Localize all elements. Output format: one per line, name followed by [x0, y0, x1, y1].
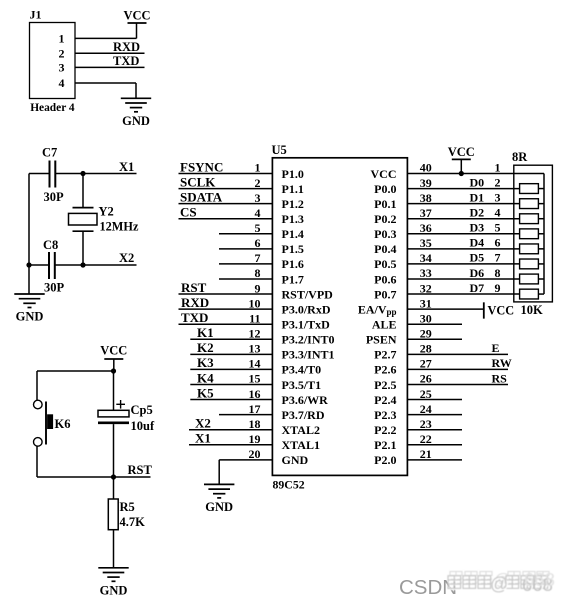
wire U5 pin 28 — [407, 353, 508, 355]
svg-text:11: 11 — [249, 311, 260, 325]
svg-text:668: 668 — [524, 569, 555, 590]
svg-text:22: 22 — [420, 432, 432, 446]
svg-text:Y2: Y2 — [99, 205, 114, 219]
svg-text:P0.6: P0.6 — [374, 272, 396, 286]
svg-text:X2: X2 — [195, 415, 211, 430]
svg-text:29: 29 — [420, 326, 432, 340]
RN resistor 8 lead — [538, 293, 544, 295]
svg-text:7: 7 — [255, 251, 261, 265]
svg-text:D4: D4 — [470, 236, 485, 250]
svg-text:C8: C8 — [43, 238, 58, 252]
svg-text:39: 39 — [420, 176, 432, 190]
wire U5 pin 20 to ground — [218, 460, 220, 485]
RN resistor 5 lead — [538, 248, 544, 250]
svg-text:35: 35 — [420, 236, 432, 250]
svg-text:X1: X1 — [119, 160, 134, 174]
svg-text:20: 20 — [249, 447, 261, 461]
svg-text:23: 23 — [420, 417, 432, 431]
wire U5 pin 20 — [219, 459, 272, 461]
RN resistor 7 lead — [538, 278, 544, 280]
svg-text:K5: K5 — [197, 385, 214, 400]
svg-text:2: 2 — [255, 176, 261, 190]
wire U5 pin 10 — [179, 308, 273, 310]
svg-text:34: 34 — [420, 251, 432, 265]
svg-text:4.7K: 4.7K — [120, 515, 146, 529]
wire switch to RST rail — [36, 446, 38, 477]
wire U5 pin 34 — [407, 263, 519, 265]
svg-text:K1: K1 — [197, 325, 214, 340]
svg-text:9: 9 — [255, 281, 261, 295]
svg-text:30P: 30P — [44, 190, 65, 204]
wire RST net — [114, 476, 151, 478]
svg-text:30: 30 — [420, 311, 432, 325]
svg-text:4: 4 — [59, 76, 65, 90]
IC U5 89C52 body — [272, 158, 407, 476]
node pin40 VCC junction — [459, 171, 464, 176]
svg-text:19: 19 — [249, 432, 261, 446]
svg-text:24: 24 — [420, 402, 432, 416]
svg-text:8R: 8R — [512, 150, 528, 164]
svg-text:RST: RST — [181, 280, 207, 295]
svg-text:2: 2 — [495, 175, 501, 189]
svg-text:P2.2: P2.2 — [374, 423, 396, 437]
svg-text:R5: R5 — [120, 500, 135, 514]
svg-text:89C52: 89C52 — [273, 478, 305, 492]
wire U5 pin 18 — [189, 429, 272, 431]
svg-text:VCC: VCC — [371, 167, 397, 181]
svg-text:RXD: RXD — [181, 295, 209, 310]
wire U5 pin 32 — [407, 293, 519, 295]
RN resistor 6 — [520, 259, 539, 269]
svg-text:RS: RS — [492, 371, 508, 385]
wire U5 pin 9 — [179, 293, 273, 295]
wire U5 pin 33 — [407, 278, 519, 280]
svg-text:X2: X2 — [119, 251, 134, 265]
svg-text:17: 17 — [249, 402, 261, 416]
svg-text:D0: D0 — [470, 175, 485, 189]
svg-text:P1.6: P1.6 — [282, 257, 304, 271]
svg-text:P3.0/RxD: P3.0/RxD — [282, 302, 331, 316]
svg-text:D6: D6 — [470, 266, 485, 280]
svg-text:26: 26 — [420, 372, 432, 386]
svg-text:P3.4/T0: P3.4/T0 — [282, 363, 322, 377]
wire X2 net — [83, 264, 137, 266]
wire VCC rail to switch — [37, 370, 114, 372]
svg-text:27: 27 — [420, 357, 432, 371]
wire U5 pin 29 — [407, 338, 462, 340]
svg-text:37: 37 — [420, 206, 432, 220]
svg-text:21: 21 — [420, 447, 432, 461]
svg-text:ALE: ALE — [372, 318, 397, 332]
svg-text:P2.1: P2.1 — [374, 438, 396, 452]
capacitor Cp5 plus sign — [116, 403, 125, 405]
svg-text:P2.7: P2.7 — [374, 348, 396, 362]
svg-text:6: 6 — [495, 236, 501, 250]
svg-text:K2: K2 — [197, 340, 214, 355]
svg-text:P3.3/INT1: P3.3/INT1 — [282, 348, 335, 362]
svg-text:3: 3 — [495, 190, 501, 204]
svg-text:D7: D7 — [470, 281, 485, 295]
wire U5 pin 22 — [407, 444, 462, 446]
wire X1 net — [83, 173, 137, 175]
svg-text:XTAL2: XTAL2 — [282, 423, 320, 437]
wire U5 pin 12 — [190, 338, 272, 340]
wire U5 pin 37 — [407, 218, 519, 220]
resistor R5 — [108, 499, 118, 530]
wire U5 pin 14 — [190, 368, 272, 370]
switch K6 — [34, 400, 43, 409]
svg-text:P3.7/RD: P3.7/RD — [282, 408, 325, 422]
svg-text:P0.7: P0.7 — [374, 287, 396, 301]
svg-text:U5: U5 — [272, 143, 287, 157]
RN resistor 2 — [520, 199, 539, 209]
svg-text:P0.3: P0.3 — [374, 227, 396, 241]
RN common bus — [543, 174, 545, 295]
svg-text:P1.3: P1.3 — [282, 212, 304, 226]
node RXD wire (J1 pin2) — [75, 52, 145, 54]
svg-text:30P: 30P — [44, 280, 65, 294]
wire U5 pin 24 — [407, 414, 462, 416]
svg-text:P0.4: P0.4 — [374, 242, 396, 256]
svg-text:RXD: RXD — [113, 40, 140, 54]
svg-text:12MHz: 12MHz — [100, 220, 139, 234]
svg-text:7: 7 — [495, 251, 501, 265]
svg-text:SCLK: SCLK — [180, 174, 216, 189]
svg-text:9: 9 — [495, 281, 501, 295]
svg-text:6: 6 — [255, 236, 261, 250]
wire U5 pin 19 — [189, 444, 272, 446]
svg-text:GND: GND — [282, 453, 309, 467]
svg-text:RST: RST — [128, 463, 153, 477]
ground (U5 pin 20) — [204, 483, 234, 485]
wire U5 pin 15 — [190, 383, 272, 385]
wire U5 pin 36 — [407, 233, 519, 235]
svg-text:P0.5: P0.5 — [374, 257, 396, 271]
ground (crystal) — [14, 293, 44, 295]
svg-text:31: 31 — [420, 296, 432, 310]
capacitor C7 — [29, 173, 50, 175]
svg-text:GND: GND — [100, 583, 128, 597]
svg-text:13: 13 — [249, 342, 261, 356]
node C8 left junction — [26, 262, 31, 267]
capacitor C8 — [29, 264, 49, 266]
wire left rail (crystal) — [28, 174, 30, 295]
svg-text:16: 16 — [249, 387, 261, 401]
svg-text:GND: GND — [16, 310, 44, 324]
svg-text:28: 28 — [420, 342, 432, 356]
svg-text:1: 1 — [495, 160, 501, 174]
svg-text:K6: K6 — [55, 417, 71, 431]
svg-text:P2.4: P2.4 — [374, 393, 396, 407]
svg-text:25: 25 — [420, 387, 432, 401]
wire U5 pin 3 — [179, 203, 273, 205]
svg-text:8: 8 — [495, 266, 501, 280]
svg-text:FSYNC: FSYNC — [180, 159, 223, 174]
svg-text:P1.0: P1.0 — [282, 167, 304, 181]
RN resistor 1 — [520, 184, 539, 194]
svg-text:E: E — [492, 341, 500, 355]
wire U5 pin 23 — [407, 429, 462, 431]
RN resistor 4 — [520, 229, 539, 239]
svg-text:14: 14 — [249, 357, 261, 371]
svg-text:VCC: VCC — [488, 304, 515, 318]
svg-text:P3.5/T1: P3.5/T1 — [282, 378, 322, 392]
wire R5 to ground — [113, 530, 115, 568]
svg-text:K4: K4 — [197, 370, 214, 385]
svg-text:32: 32 — [420, 281, 432, 295]
svg-text:TXD: TXD — [113, 54, 139, 68]
node X1 junction — [80, 171, 85, 176]
svg-text:@: @ — [490, 574, 508, 594]
svg-text:3: 3 — [59, 61, 65, 75]
svg-text:2: 2 — [59, 47, 65, 61]
wire U5 pin 4 — [179, 218, 273, 220]
svg-text:VCC: VCC — [448, 145, 475, 159]
svg-text:D5: D5 — [470, 251, 485, 265]
svg-text:D3: D3 — [470, 221, 485, 235]
svg-text:P2.0: P2.0 — [374, 453, 396, 467]
wire U5 pin 21 — [407, 459, 462, 461]
svg-text:P1.1: P1.1 — [282, 182, 304, 196]
svg-text:P0.0: P0.0 — [374, 182, 396, 196]
svg-text:4: 4 — [255, 206, 261, 220]
svg-text:36: 36 — [420, 221, 432, 235]
svg-text:CS: CS — [180, 205, 197, 220]
RN resistor 2 lead — [538, 203, 544, 205]
wire U5 pin 5 — [219, 233, 272, 235]
svg-text:TXD: TXD — [181, 310, 208, 325]
svg-text:P0.1: P0.1 — [374, 197, 396, 211]
wire U5 pin 30 — [407, 323, 462, 325]
svg-text:10uf: 10uf — [131, 419, 155, 433]
wire U5 pin 1 — [179, 173, 273, 175]
wire J1 pin4 to ground — [75, 82, 136, 84]
node TXD wire (J1 pin3) — [75, 66, 145, 68]
svg-text:18: 18 — [249, 417, 261, 431]
wire U5 pin 17 — [219, 414, 272, 416]
svg-text:Header 4: Header 4 — [30, 102, 75, 114]
svg-text:P3.2/INT0: P3.2/INT0 — [282, 333, 335, 347]
svg-text:XTAL1: XTAL1 — [282, 438, 320, 452]
ground (J1) — [121, 97, 151, 99]
RN resistor 5 — [520, 244, 539, 254]
node reset VCC junction — [111, 368, 116, 373]
svg-text:8: 8 — [255, 266, 261, 280]
svg-text:K3: K3 — [197, 355, 214, 370]
svg-text:10: 10 — [249, 296, 261, 310]
svg-text:10K: 10K — [521, 303, 544, 317]
svg-text:C7: C7 — [42, 145, 57, 159]
svg-text:Cp5: Cp5 — [131, 403, 153, 417]
svg-text:P2.6: P2.6 — [374, 363, 396, 377]
svg-text:RW: RW — [492, 356, 512, 370]
wire U5 pin 2 — [179, 188, 273, 190]
svg-text:VCC: VCC — [123, 9, 150, 23]
svg-text:RST/VPD: RST/VPD — [282, 287, 334, 301]
RN resistor 1 lead — [538, 188, 544, 190]
svg-text:P3.1/TxD: P3.1/TxD — [282, 318, 331, 332]
svg-text:D1: D1 — [470, 190, 485, 204]
svg-text:J1: J1 — [30, 8, 42, 22]
wire U5 pin 27 — [407, 368, 508, 370]
svg-text:P1.2: P1.2 — [282, 197, 304, 211]
wire U5 pin 25 — [407, 399, 462, 401]
wire crystal top lead — [82, 174, 84, 208]
svg-text:12: 12 — [249, 326, 261, 340]
wire U5 pin 38 — [407, 203, 519, 205]
capacitor Cp5 — [98, 410, 129, 417]
svg-text:SDATA: SDATA — [180, 189, 223, 204]
svg-text:P2.3: P2.3 — [374, 408, 396, 422]
svg-text:P1.7: P1.7 — [282, 272, 304, 286]
svg-text:P1.5: P1.5 — [282, 242, 304, 256]
wire U5 pin 40 — [407, 173, 544, 175]
svg-text:40: 40 — [420, 161, 432, 175]
svg-text:4: 4 — [495, 206, 501, 220]
svg-text:P1.4: P1.4 — [282, 227, 304, 241]
wire U5 pin 39 — [407, 188, 519, 190]
svg-text:1: 1 — [59, 32, 65, 46]
wire U5 pin 13 — [190, 353, 272, 355]
wire U5 pin 31 — [407, 308, 483, 310]
wire U5 pin 16 — [190, 399, 272, 401]
svg-text:33: 33 — [420, 266, 432, 280]
svg-text:P3.6/WR: P3.6/WR — [282, 393, 329, 407]
svg-text:P2.5: P2.5 — [374, 378, 396, 392]
crystal Y2 — [73, 207, 94, 209]
svg-text:P0.2: P0.2 — [374, 212, 396, 226]
connector J1 box — [30, 23, 76, 99]
RN resistor 8 — [520, 289, 539, 299]
svg-text:5: 5 — [255, 221, 261, 235]
wire U5 pin 7 — [219, 263, 272, 265]
RN resistor 6 lead — [538, 263, 544, 265]
wire VCC to capacitor Cp5 — [113, 371, 115, 410]
wire J1 pin1 to VCC — [75, 37, 137, 39]
RN resistor 3 — [520, 214, 539, 224]
svg-text:X1: X1 — [195, 431, 211, 446]
svg-text:PSEN: PSEN — [366, 333, 397, 347]
svg-text:D2: D2 — [470, 206, 485, 220]
RN resistor 4 lead — [538, 233, 544, 235]
svg-text:38: 38 — [420, 191, 432, 205]
RN resistor 3 lead — [538, 218, 544, 220]
svg-text:GND: GND — [205, 500, 233, 514]
svg-text:5: 5 — [495, 221, 501, 235]
node X2 junction — [80, 262, 85, 267]
svg-text:VCC: VCC — [100, 344, 127, 358]
svg-text:3: 3 — [255, 191, 261, 205]
resistor network RN 8R box — [514, 165, 553, 302]
wire U5 pin 11 — [179, 323, 273, 325]
svg-text:GND: GND — [122, 114, 150, 128]
wire U5 pin 6 — [219, 248, 272, 250]
node RST junction — [111, 474, 116, 479]
VCC bar (U5 pin 31 EA/Vpp) — [483, 302, 485, 318]
wire U5 pin 8 — [219, 278, 272, 280]
RN resistor 7 — [520, 274, 539, 284]
wire U5 pin 26 — [407, 383, 508, 385]
svg-text:1: 1 — [255, 161, 261, 175]
ground (reset) — [98, 567, 128, 569]
svg-text:15: 15 — [249, 372, 261, 386]
wire RST to resistor R5 — [113, 477, 115, 499]
wire U5 pin 35 — [407, 248, 519, 250]
